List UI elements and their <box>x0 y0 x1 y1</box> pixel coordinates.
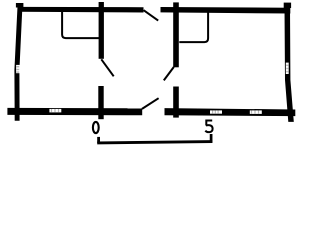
window in bottom wall of left room <box>49 109 61 113</box>
door leaf in bottom wall <box>142 98 159 109</box>
window 2 in bottom wall of right room <box>250 110 262 114</box>
bottom wall left segment <box>7 108 142 115</box>
scale bar left tick <box>97 137 100 143</box>
scale bar right tick <box>210 134 213 143</box>
scale label 5 (drawn as vector glyph) <box>206 121 212 126</box>
door leaf in wall 2 <box>101 59 113 76</box>
left exterior wall <box>14 7 22 121</box>
scale bar horizontal line <box>97 142 212 143</box>
top wall left segment <box>18 7 144 13</box>
right exterior wall <box>285 7 294 122</box>
bottom wall right segment <box>165 108 296 116</box>
interior wall 3 lower segment <box>173 87 179 118</box>
window in right wall <box>286 63 289 74</box>
interior wall 2 lower segment <box>98 86 103 119</box>
top wall right segment <box>161 7 291 14</box>
right wall top cap <box>284 3 291 8</box>
door leaf in wall 3 <box>164 67 174 80</box>
door leaf in top wall <box>144 10 159 20</box>
interior wall 3 upper segment <box>173 2 179 67</box>
interior wall 2 upper segment <box>99 2 104 59</box>
window in left wall <box>16 65 22 73</box>
closet partition in right room <box>179 13 208 43</box>
scale label 0 (drawn as vector glyph) <box>93 122 99 133</box>
window 1 in bottom wall of right room <box>210 110 222 113</box>
closet partition in left room <box>62 12 99 38</box>
left wall top cap <box>16 3 24 8</box>
